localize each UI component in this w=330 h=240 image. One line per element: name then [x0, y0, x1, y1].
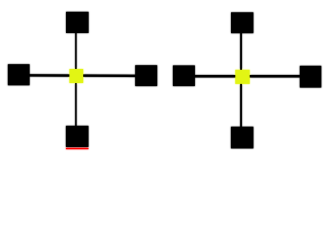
wire: right graph horizontal edge [184, 75, 310, 78]
node: right graph top square [231, 12, 253, 33]
node: left graph yellow center [69, 69, 83, 83]
soft halo pass (blurred underlayer) [8, 12, 321, 149]
node: left graph left square [8, 64, 30, 85]
node: left graph top square [66, 12, 89, 33]
node: right graph yellow center [235, 70, 249, 84]
wire: left graph vertical edge [75, 22, 77, 137]
node: right graph left square [173, 65, 195, 86]
node: left graph right square [135, 65, 157, 86]
wire: right graph vertical edge [240, 22, 242, 137]
red underline of left graph bottom square [66, 148, 89, 149]
sharp pass [8, 12, 321, 149]
node: left graph bottom square [66, 126, 89, 147]
wire: left graph horizontal edge [18, 74, 147, 77]
node: right graph right square [300, 66, 321, 88]
node: right graph bottom square [231, 127, 253, 149]
